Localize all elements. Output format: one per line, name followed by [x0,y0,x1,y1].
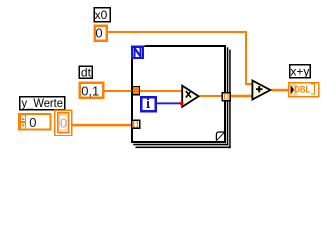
svg-text:0: 0 [29,115,36,130]
folded-corner (dog-ear) bottom-right of loop [216,132,224,141]
auto-indexing input tunnel (y_Werte) [132,120,140,128]
svg-text:DBL: DBL [294,85,310,96]
indicator terminal x+y (array of DBL) [289,83,319,97]
iteration terminal i [141,97,156,111]
array control y_Werte: index box with spinner [19,114,51,130]
svg-text:0,1: 0,1 [81,83,99,98]
svg-text:0: 0 [60,115,67,130]
label x0 [94,8,110,22]
svg-text:y_Werte: y_Werte [22,98,64,110]
svg-text:dt: dt [81,66,92,80]
numeric constant x0 = 0 [95,26,107,41]
label x+y [290,65,311,79]
add node [252,81,270,100]
svg-text:0: 0 [95,26,102,41]
auto-indexing output tunnel [222,93,230,101]
wire tunnel to multiply (inside loop) [140,90,183,92]
array wire tunnel to add node (thick orange) [231,95,253,98]
svg-text:x0: x0 [95,8,108,22]
wire multiply to output tunnel [200,95,223,97]
spinner down button [21,123,26,129]
spinner up button [21,115,26,121]
input tunnel from dt (solid orange) [132,86,141,96]
label dt [79,66,92,80]
numeric constant dt = 0,1 [80,83,104,99]
for-loop echo frame 1 (stacked iteration frame) [133,47,228,145]
wire dt constant to loop tunnel [105,90,133,92]
count terminal N [130,44,144,58]
array control y_Werte: element (array shell + numeric element) [55,110,72,135]
multiply node [182,86,198,107]
label y_Werte [20,97,65,110]
svg-text:x+y: x+y [290,65,309,79]
for-loop main frame [131,45,226,143]
array wire add node to DBL indicator (thick orange) [272,89,290,92]
wire x0 constant to add node (orange elbow) [108,31,247,33]
wire i terminal to multiply (blue) [157,102,183,104]
for-loop echo frame 2 (stacked iteration frame) [136,50,231,149]
array wire y_Werte control to loop tunnel (thick orange) [72,124,132,127]
coercion dot (red) at multiply input [180,102,184,106]
